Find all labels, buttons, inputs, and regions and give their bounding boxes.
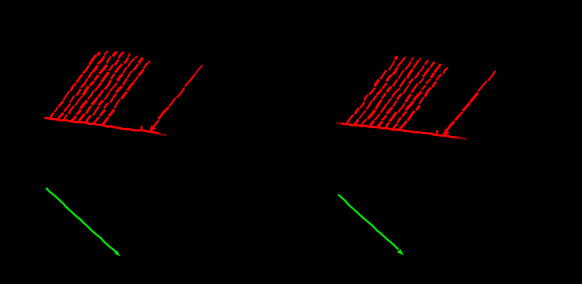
right panel rain streak 5	[378, 60, 429, 126]
right panel rain streak 6	[386, 62, 435, 128]
left panel tick mark on ground	[140, 126, 143, 131]
right panel ground line faded end	[456, 138, 467, 139]
left panel rain streak 7	[94, 58, 143, 124]
right panel tick mark on ground	[436, 130, 439, 136]
right panel rain streak 7	[393, 64, 441, 129]
left panel rain streak 6	[86, 56, 137, 123]
right panel rain streak 4	[370, 58, 421, 125]
left panel rain streak 4	[71, 52, 123, 121]
right panel ground line	[341, 123, 461, 138]
left panel ground line	[45, 118, 161, 134]
right panel ground line faded start	[337, 122, 343, 124]
left panel ground line faded end	[158, 134, 167, 135]
right panel rain streak 8	[400, 68, 448, 130]
right panel rain streak 1	[346, 56, 397, 124]
right panel rain velocity ray (dashed, arrow at ground)	[443, 71, 496, 137]
right panel rain streak 3	[362, 57, 414, 125]
left panel car velocity vector (green)	[46, 188, 119, 256]
right panel car velocity vector (green)	[338, 194, 403, 254]
left panel rain streak 5	[78, 54, 130, 123]
left panel rain streak 3	[64, 52, 117, 120]
right panel rain streak 2	[354, 57, 406, 125]
left panel rain streak 1	[50, 52, 100, 118]
left panel rain streak 2	[58, 51, 108, 119]
left panel rain streak 8	[102, 61, 150, 126]
left panel rain velocity ray (dashed, arrow at ground)	[149, 65, 202, 132]
